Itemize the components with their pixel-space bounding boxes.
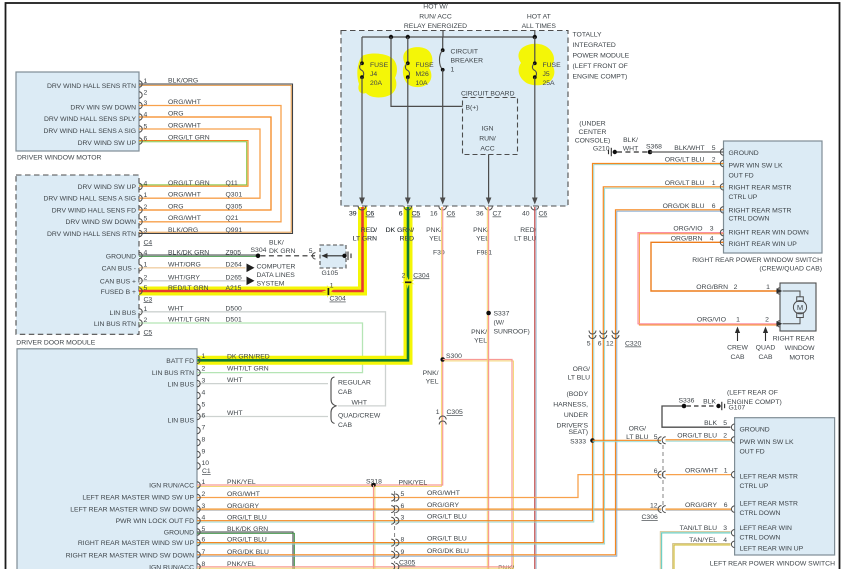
svg-text:CTRL DOWN: CTRL DOWN [729, 215, 770, 222]
svg-text:RED/LT GRN: RED/LT GRN [168, 285, 209, 292]
svg-text:LT GRN: LT GRN [353, 236, 377, 243]
brace cab selector [331, 377, 336, 424]
svg-text:S337: S337 [494, 311, 510, 318]
svg-text:8: 8 [401, 537, 405, 544]
svg-text:16: 16 [430, 211, 438, 218]
text C4 pin numbers [144, 180, 148, 234]
wire ORG/LT BLU S333 to C306 pin5 [593, 439, 662, 441]
wire BLK/DK GRN green stripe Z905 [139, 255, 258, 257]
TIPM dashed box [341, 31, 568, 207]
svg-text:CAB: CAB [731, 354, 745, 361]
text ORG/LT BLU 2 row label [677, 433, 727, 440]
wire PNK/YEL F981 sunroof vertical [488, 207, 490, 569]
svg-text:MOTOR: MOTOR [789, 355, 814, 362]
svg-text:ORG/GRY: ORG/GRY [427, 502, 459, 509]
svg-text:ORG/LT BLU: ORG/LT BLU [427, 536, 467, 543]
svg-text:(BODY: (BODY [566, 391, 588, 398]
svg-text:C4: C4 [144, 239, 153, 246]
wire dashed BLK S336 to G107 [687, 405, 716, 407]
svg-text:4: 4 [144, 180, 148, 187]
text pin 39 C6 redraw [349, 211, 374, 218]
pin arcs right rear window motor with arrowheads [777, 288, 780, 327]
pin arcs C3 [139, 252, 142, 294]
svg-text:SEAT): SEAT) [568, 429, 588, 436]
svg-text:6: 6 [202, 537, 206, 544]
svg-text:5: 5 [309, 248, 313, 255]
svg-text:FUSE: FUSE [543, 62, 562, 69]
svg-text:YEL: YEL [426, 379, 439, 386]
svg-text:RED/: RED/ [361, 227, 377, 234]
wire fuse J5 to pin 40 [534, 77, 536, 198]
svg-text:3: 3 [710, 226, 714, 233]
svg-text:PNK/YEL: PNK/YEL [227, 479, 256, 486]
connector C306 arcs rows 5,6,12 [658, 437, 666, 513]
svg-text:GROUND: GROUND [740, 427, 770, 434]
text BLK/ DK GRN dashed label [269, 239, 296, 255]
svg-text:LIN BUS RTN: LIN BUS RTN [152, 370, 194, 377]
svg-text:5: 5 [723, 420, 727, 427]
svg-text:CAB: CAB [759, 354, 773, 361]
wire ORG/LT GRN hairpin green stripe [139, 142, 247, 185]
svg-text:DK GRN: DK GRN [269, 248, 296, 255]
svg-text:1: 1 [144, 192, 148, 199]
svg-text:2: 2 [734, 284, 738, 291]
svg-text:CTRL DOWN: CTRL DOWN [740, 510, 781, 517]
svg-text:10A: 10A [416, 80, 429, 87]
highlight blob fuse M26 [403, 47, 433, 87]
svg-text:ORG: ORG [168, 203, 183, 210]
motor M symbol [783, 291, 807, 324]
driver window motor box [16, 72, 139, 151]
wire ORG/VIO rr pin3 to motor [638, 233, 777, 324]
text wire label red/lt grn [353, 227, 377, 243]
wire BLK/ORG hairpin pin1 to Q991 [139, 84, 293, 234]
wire ORG/LT BLU c1 pin4 to S333 [197, 441, 593, 521]
svg-text:D501: D501 [226, 317, 242, 324]
svg-text:SUNROOF): SUNROOF) [494, 329, 530, 336]
svg-text:6: 6 [144, 136, 148, 143]
svg-text:2: 2 [202, 365, 206, 372]
text BLK 5 row label [704, 420, 727, 427]
text 1 C305 [436, 409, 463, 416]
svg-text:IGN RUN/ACC: IGN RUN/ACC [149, 564, 194, 569]
wire B+ branch [391, 37, 463, 106]
svg-text:12: 12 [650, 503, 658, 510]
wire PNK/YEL S318 branch down stripe [374, 486, 376, 569]
node bus junction B+ [389, 35, 393, 39]
svg-text:C6: C6 [539, 211, 548, 218]
svg-text:RUN/ ACC: RUN/ ACC [419, 13, 452, 20]
text PNK/YEL S337 wire [471, 329, 487, 345]
svg-text:2: 2 [144, 90, 148, 97]
wire ORG/LT BLU rr pin2 pwr win lk out down to S333 [593, 164, 724, 441]
text fuse M26 10A [416, 62, 435, 87]
svg-text:FUSE: FUSE [370, 62, 389, 69]
svg-text:5: 5 [144, 124, 148, 131]
wire to fuse M26 [407, 37, 409, 63]
driver door module dashed box [16, 175, 139, 334]
svg-text:M: M [797, 303, 803, 312]
text driver window motor pin numbers [144, 78, 148, 143]
text PNK/YEL bottom of S300 branch [498, 565, 514, 569]
svg-text:10: 10 [202, 460, 210, 467]
svg-text:5: 5 [202, 526, 206, 533]
svg-text:C320: C320 [625, 341, 641, 348]
text C5 wire labels [168, 305, 210, 323]
svg-text:ALL TIMES: ALL TIMES [522, 23, 557, 30]
connector C320 arcs [589, 331, 619, 339]
wire fuse J4 to pin 39 [361, 77, 363, 198]
text wire label pnk/yel F30 [426, 227, 445, 257]
driver door module lower solid box [17, 349, 197, 569]
svg-text:BLK/ORG: BLK/ORG [168, 78, 198, 85]
svg-text:1: 1 [330, 282, 334, 289]
svg-text:DRV WIND HALL SENS FD: DRV WIND HALL SENS FD [52, 207, 136, 214]
svg-text:CAB: CAB [338, 422, 352, 429]
text door module upper wire labels [227, 353, 270, 417]
ground G105 arrow and symbol [322, 252, 352, 261]
svg-text:M26: M26 [416, 71, 429, 78]
node S318 [371, 483, 376, 488]
svg-text:5: 5 [587, 341, 591, 348]
svg-text:ORG/LT GRN: ORG/LT GRN [168, 180, 210, 187]
svg-text:D265: D265 [226, 275, 242, 282]
svg-text:2: 2 [712, 157, 716, 164]
svg-text:ORG/BRN: ORG/BRN [671, 235, 703, 242]
svg-text:LEFT REAR WIN UP: LEFT REAR WIN UP [740, 546, 804, 553]
svg-text:ENGINE COMPT): ENGINE COMPT) [573, 74, 628, 81]
svg-text:6: 6 [724, 502, 728, 509]
svg-text:IGN: IGN [481, 126, 493, 133]
svg-text:ORG/LT BLU: ORG/LT BLU [677, 433, 717, 440]
svg-text:ORG/: ORG/ [573, 366, 590, 373]
svg-text:6: 6 [401, 503, 405, 510]
text lr switch pin labels [740, 427, 804, 553]
svg-text:BLK/: BLK/ [623, 137, 638, 144]
fuse J5 [532, 61, 536, 79]
svg-text:WHT/GRY: WHT/GRY [168, 275, 200, 282]
text totally integrated power module [573, 32, 630, 81]
svg-text:ORG/LT BLU: ORG/LT BLU [665, 180, 705, 187]
svg-text:LEFT REAR MASTER WIND SW DOWN: LEFT REAR MASTER WIND SW DOWN [70, 507, 194, 514]
text wire label dk grn/red pin6 [386, 227, 414, 243]
svg-text:CTRL UP: CTRL UP [740, 483, 769, 490]
svg-text:12: 12 [606, 341, 614, 348]
text ORG/BRN 4 [671, 235, 714, 242]
svg-text:HARNESS,: HARNESS, [553, 402, 588, 409]
svg-text:ORG/WHT: ORG/WHT [685, 468, 718, 475]
text door module upper pin labels [152, 358, 195, 425]
svg-text:39: 39 [349, 211, 357, 218]
svg-text:BREAKER: BREAKER [451, 58, 484, 65]
svg-text:ORG/DK BLU: ORG/DK BLU [227, 549, 269, 556]
svg-text:1: 1 [736, 317, 740, 324]
text PNK/YEL below S300 [423, 370, 439, 386]
svg-text:S336: S336 [679, 398, 695, 405]
text C5 pin numbers [144, 306, 148, 324]
text crew cab quad cab arrows [738, 330, 766, 341]
text ORG/WHT 1 row [685, 468, 728, 475]
svg-text:CONSOLE): CONSOLE) [575, 138, 611, 145]
wire PNK/YEL F30 breaker pin16 down through S300 C305 to C1 pin1 stripe [197, 207, 441, 486]
svg-text:2: 2 [202, 491, 206, 498]
svg-text:C6: C6 [366, 211, 375, 218]
svg-text:1: 1 [144, 262, 148, 269]
svg-text:RIGHT REAR MASTER WIND SW UP: RIGHT REAR MASTER WIND SW UP [78, 540, 195, 547]
svg-text:WHT: WHT [227, 377, 242, 384]
svg-text:BLK/DK GRN: BLK/DK GRN [227, 526, 268, 533]
svg-text:RIGHT REAR MASTER WIND SW DOWN: RIGHT REAR MASTER WIND SW DOWN [66, 552, 194, 559]
text wire label dk grn/red [386, 227, 414, 243]
text under center console G210 [575, 120, 611, 152]
svg-text:RED/: RED/ [520, 227, 536, 234]
svg-text:2: 2 [144, 275, 148, 282]
svg-text:4: 4 [202, 389, 206, 396]
svg-text:ORG/LT BLU: ORG/LT BLU [227, 537, 267, 544]
svg-text:9: 9 [202, 448, 206, 455]
pin arc G105 pin 5 [312, 253, 315, 259]
svg-text:25A: 25A [543, 80, 556, 87]
node S336 [682, 404, 687, 409]
connector C305 dashed line [394, 491, 396, 563]
wire ORG/LT BLU c1 pin6 stripe [197, 188, 724, 544]
node S304 [256, 254, 261, 259]
pin arcs left rear switch [731, 424, 734, 548]
svg-text:2: 2 [723, 433, 727, 440]
text C4 wire labels [168, 180, 210, 234]
svg-text:WHT/ORG: WHT/ORG [168, 262, 201, 269]
text driver window motor pin labels [43, 83, 136, 147]
arrowhead pin 39 [359, 198, 365, 205]
svg-text:2: 2 [144, 317, 148, 324]
ground G107 symbol [716, 402, 724, 410]
svg-text:PNK/: PNK/ [426, 227, 442, 234]
text C3 circuit codes [226, 249, 242, 291]
svg-text:POWER MODULE: POWER MODULE [573, 53, 630, 60]
svg-text:2: 2 [144, 204, 148, 211]
svg-text:WHT: WHT [623, 145, 638, 152]
wire ORG/WHT C306 to lr switch pin1 [666, 474, 732, 476]
svg-text:A215: A215 [226, 285, 242, 292]
svg-text:ORG: ORG [168, 111, 183, 118]
svg-text:DRIVER WINDOW MOTOR: DRIVER WINDOW MOTOR [17, 155, 102, 162]
svg-text:LIN BUS RTN: LIN BUS RTN [94, 321, 136, 328]
svg-text:CIRCUIT BOARD: CIRCUIT BOARD [461, 91, 515, 98]
svg-text:1: 1 [766, 284, 770, 291]
pin arcs driver window motor [139, 81, 142, 144]
svg-text:7: 7 [202, 424, 206, 431]
svg-text:(LEFT FRONT OF: (LEFT FRONT OF [573, 63, 628, 70]
text hot w/ run/acc relay energized [404, 4, 467, 30]
svg-text:WHT: WHT [227, 410, 242, 417]
circuit board dashed box [463, 98, 518, 155]
svg-text:RIGHT REAR: RIGHT REAR [773, 336, 815, 343]
wire RED/LT GRN fused B+ A215 [139, 207, 363, 291]
svg-text:RIGHT REAR WIN DOWN: RIGHT REAR WIN DOWN [729, 229, 809, 236]
text regular cab [338, 380, 371, 397]
svg-text:LEFT REAR MASTER WIND SW UP: LEFT REAR MASTER WIND SW UP [82, 495, 194, 502]
svg-text:PNK/: PNK/ [473, 227, 489, 234]
svg-text:G105: G105 [322, 270, 339, 277]
svg-text:S333: S333 [570, 439, 586, 446]
svg-text:6: 6 [598, 341, 602, 348]
fuse M26 [405, 61, 409, 79]
svg-text:C305: C305 [399, 560, 415, 567]
svg-text:DATA LINES: DATA LINES [257, 272, 296, 279]
svg-text:PNK/YEL: PNK/YEL [399, 480, 428, 487]
svg-text:1: 1 [724, 468, 728, 475]
text ORG/BRN 2 1 motor row [696, 284, 770, 291]
svg-text:PNK/: PNK/ [471, 329, 487, 336]
wire PNK/YEL S300 branch stripe [444, 361, 513, 569]
svg-text:ORG/GRY: ORG/GRY [227, 503, 259, 510]
svg-text:S304: S304 [251, 247, 267, 254]
text C1 pin labels [66, 483, 195, 569]
right rear window motor box [780, 283, 816, 331]
svg-text:DRV WIND HALL SENS A SIG: DRV WIND HALL SENS A SIG [43, 196, 136, 203]
arrowheads at TIPM connector pins [359, 198, 537, 205]
svg-text:LEFT REAR MSTR: LEFT REAR MSTR [740, 474, 799, 481]
svg-text:LT BLU: LT BLU [626, 434, 649, 441]
svg-text:C1: C1 [202, 468, 211, 475]
svg-text:YEL: YEL [474, 338, 487, 345]
svg-text:GROUND: GROUND [106, 253, 136, 260]
svg-text:DK GRN/: DK GRN/ [386, 227, 414, 234]
svg-text:4: 4 [144, 249, 148, 256]
wire DK GRN/RED batt fd [198, 207, 409, 360]
svg-text:OUT FD: OUT FD [729, 173, 754, 180]
text ORG/GRY 6 row [685, 502, 728, 509]
svg-text:CREW: CREW [727, 345, 748, 352]
svg-text:4: 4 [723, 537, 727, 544]
wire TAN/YEL lr switch pin4 tan [673, 544, 731, 569]
wire BLK/ORG orange stripe [139, 85, 291, 232]
text wire label red/lt grn pin39 [353, 227, 377, 243]
svg-text:20A: 20A [370, 80, 383, 87]
pin arcs driver door module C4 [139, 183, 142, 236]
svg-text:1: 1 [436, 409, 440, 416]
svg-text:CAN BUS -: CAN BUS - [102, 266, 136, 273]
svg-text:LEFT REAR MSTR: LEFT REAR MSTR [740, 501, 799, 508]
right rear power window switch box [724, 141, 823, 253]
svg-text:ORG/WHT: ORG/WHT [168, 123, 201, 130]
text door module pin numbers 1-10 [202, 353, 210, 467]
svg-text:5: 5 [401, 491, 405, 498]
svg-text:CENTER: CENTER [579, 129, 607, 136]
fuse J4 [360, 61, 364, 79]
text S337 w/ sunroof [494, 311, 530, 336]
text 2 C304 [402, 272, 430, 279]
text pin 6 C5 redraw [399, 211, 421, 218]
svg-text:Q305: Q305 [226, 203, 243, 210]
svg-text:ORG/VIO: ORG/VIO [697, 317, 726, 324]
text quad/crew cab [338, 413, 381, 430]
svg-text:(CREW/QUAD CAB): (CREW/QUAD CAB) [759, 266, 822, 273]
G105 ground dashed box [320, 245, 346, 268]
node S300 [440, 357, 445, 362]
text C4 circuit codes [226, 180, 243, 234]
svg-text:BLK/ORG: BLK/ORG [168, 227, 198, 234]
wire ORG/DK BLU c1 pin7 stripe [197, 211, 724, 556]
text body harness under drivers seat S333 [553, 391, 588, 446]
text left rear power window switch [710, 561, 835, 569]
svg-text:ORG/GRY: ORG/GRY [685, 502, 717, 509]
text wire label red/lt blu [514, 227, 537, 243]
wire ORG/WHT hairpin pin5 to Q301 [139, 129, 260, 198]
svg-text:RIGHT REAR MSTR: RIGHT REAR MSTR [729, 184, 792, 191]
text driver window motor wire labels [168, 78, 210, 142]
node S337 [486, 311, 491, 316]
svg-text:1: 1 [451, 67, 455, 74]
wire TAN/LT BLU lr switch pin3 tan [660, 532, 730, 569]
svg-text:G210: G210 [593, 145, 610, 152]
wire TAN/YEL lr switch pin4 stripe [674, 545, 731, 569]
svg-text:4: 4 [202, 515, 206, 522]
svg-text:RIGHT REAR WIN UP: RIGHT REAR WIN UP [729, 241, 798, 248]
svg-text:GROUND: GROUND [164, 530, 194, 537]
text BLK/WHT dashed label [623, 137, 638, 152]
svg-text:Q991: Q991 [226, 227, 243, 234]
wire WHT/GRY can bus + [139, 280, 246, 282]
svg-text:ORG/LT GRN: ORG/LT GRN [168, 135, 210, 142]
svg-text:2: 2 [765, 317, 769, 324]
svg-text:RIGHT REAR POWER WINDOW SWITCH: RIGHT REAR POWER WINDOW SWITCH [692, 257, 822, 264]
text C3 pin numbers [144, 249, 148, 291]
bus wire hot feeds [362, 31, 535, 37]
svg-text:6: 6 [712, 203, 716, 210]
text pin 39 C6 [349, 211, 374, 218]
wire ORG/GRY grey stripe [197, 509, 661, 511]
wire ORG/WHT c1 pin2 to C306 pin6 [197, 475, 661, 498]
svg-text:CAN BUS +: CAN BUS + [100, 279, 136, 286]
svg-text:7: 7 [202, 549, 206, 556]
pin arc C3 5 redraw [139, 288, 142, 294]
highlight band batt fd green wire [198, 207, 409, 360]
node S333 [590, 438, 595, 443]
svg-text:1: 1 [144, 306, 148, 313]
svg-text:J5: J5 [543, 71, 550, 78]
wire PNK/YEL c1 pin8 ign run/acc [197, 566, 512, 568]
text TAN/YEL 4 row label [689, 537, 727, 544]
svg-text:ORG/LT BLU: ORG/LT BLU [227, 515, 267, 522]
svg-text:UNDER: UNDER [564, 412, 588, 419]
svg-text:PWR WIN LOCK OUT FD: PWR WIN LOCK OUT FD [116, 518, 195, 525]
svg-text:ACC: ACC [480, 146, 494, 153]
svg-text:ORG/DK BLU: ORG/DK BLU [427, 548, 469, 555]
text C1 pin numbers [202, 479, 206, 568]
svg-text:CTRL DOWN: CTRL DOWN [740, 535, 781, 542]
text pin 40 C6 [522, 211, 547, 218]
svg-text:PWR WIN SW LK: PWR WIN SW LK [729, 163, 783, 170]
text ORG/ LT BLU below C320 [568, 366, 591, 382]
wire ORG/BRN rr pin4 to motor [651, 242, 777, 291]
svg-text:3: 3 [401, 515, 405, 522]
svg-text:Q21: Q21 [226, 215, 239, 222]
text ORG/DK BLU 6 [663, 203, 716, 210]
pin arcs C5 [139, 309, 142, 327]
text pin 36 C7 [476, 211, 501, 218]
svg-text:C306: C306 [642, 514, 658, 521]
text left rear of engine compt [727, 390, 782, 406]
svg-text:ORG/: ORG/ [629, 426, 646, 433]
svg-text:FUSE: FUSE [416, 62, 435, 69]
svg-text:ORG/WHT: ORG/WHT [168, 99, 201, 106]
svg-text:3: 3 [202, 377, 206, 384]
svg-text:LIN BUS: LIN BUS [110, 310, 137, 317]
wire ORG/VIO rr pin3 stripe [639, 234, 723, 325]
wire dashed BLK/WHT G210 to S368 [617, 151, 649, 153]
ground G210 symbol [609, 148, 618, 156]
